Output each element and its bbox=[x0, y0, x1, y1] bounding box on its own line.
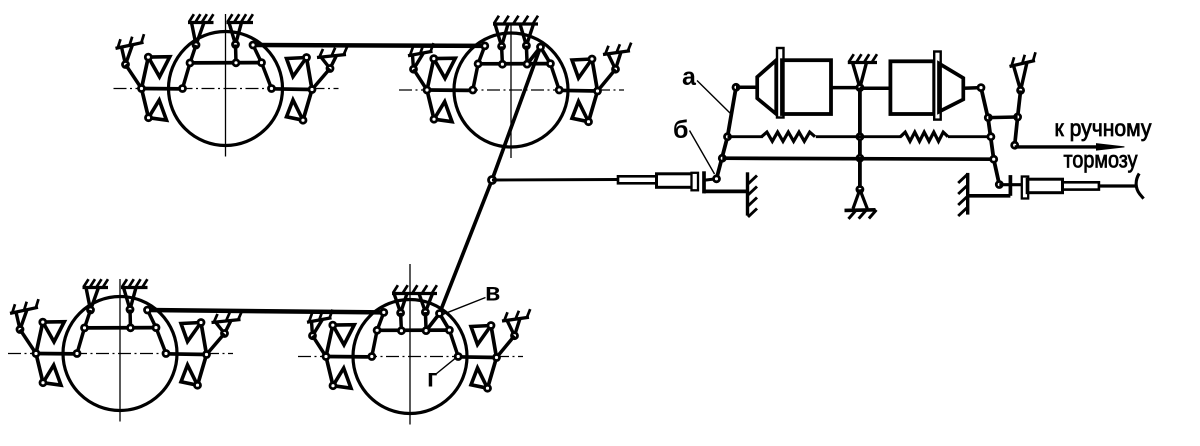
wheel 1 right lever fulcrum pin bbox=[309, 87, 315, 93]
wheel 2 beam pin 3 bbox=[524, 61, 530, 67]
wheel 1 beam left pin bbox=[187, 60, 193, 66]
left yoke bar bbox=[702, 171, 706, 193]
label б bbox=[673, 116, 688, 144]
wheel 1 right rim pin bbox=[269, 86, 275, 92]
diagonal pull rod from central junction to wheel 4 A-frame bbox=[440, 180, 493, 314]
wheel 3 left vertical brake lever bbox=[36, 322, 43, 383]
svg-text:б: б bbox=[673, 116, 688, 144]
wheel 1 left rim pin bbox=[180, 86, 186, 92]
right yoke bar bbox=[1009, 175, 1013, 196]
wheel 4 right hanger-to-lever link bbox=[497, 336, 515, 358]
wheel 3 brake beam (horizontal bar) bbox=[85, 326, 157, 330]
wheel 3 left horizontal lever bbox=[36, 352, 78, 356]
hand-brake hanger bbox=[1014, 62, 1028, 93]
wheel 1 right hanger-to-lever link bbox=[312, 69, 330, 90]
wheel 2 left upper brake shoe bbox=[434, 58, 456, 78]
left main lever bottom pin (б) bbox=[714, 176, 720, 182]
spring tie rod middle segment bbox=[816, 135, 902, 138]
brake cylinder 1 cone bbox=[757, 60, 776, 114]
wheel 1 beam middle pin bbox=[233, 60, 239, 66]
return spring 1 bbox=[762, 132, 815, 141]
wheel 4 right chain link lower bbox=[449, 330, 458, 356]
wheel 4 right lever fulcrum pin bbox=[494, 355, 500, 361]
wheel 1 right brake hanger bracket (hatched support) bbox=[317, 46, 347, 57]
central pivot mount (hatched) bbox=[845, 190, 877, 219]
pull rod from junction to slack adjuster bbox=[492, 178, 618, 181]
wheel 3 right hanger-to-lever link bbox=[207, 334, 225, 355]
svg-text:г: г bbox=[427, 365, 437, 393]
wheel 4 right outer hanger link bbox=[507, 319, 520, 339]
wheel 4 top hatched support bbox=[392, 285, 437, 293]
wheel 1 pull-rod end link bbox=[253, 45, 262, 63]
wheel 4 left upper shoe pin bbox=[330, 322, 336, 328]
label в bbox=[485, 279, 500, 307]
wheel 3 right lower shoe pin bbox=[195, 382, 201, 388]
brake cylinder 1 body bbox=[782, 60, 831, 114]
wheel 3 left lever fulcrum pin bbox=[33, 351, 39, 357]
wheel 2 horizontal centerline bbox=[399, 89, 624, 91]
coupling rod between wheel 1 and wheel 2 bbox=[253, 43, 485, 48]
left slack adjuster thin sleeve bbox=[618, 176, 657, 183]
wheel 1 right horizontal lever bbox=[271, 87, 313, 91]
wheel 4 beam pin 2 bbox=[398, 328, 404, 334]
wheel 2 left vertical brake lever bbox=[427, 59, 434, 120]
wheel 3 right rim pin bbox=[163, 351, 169, 357]
wheel 2 right brake hanger bracket (hatched support) bbox=[603, 43, 631, 55]
wheel 3 top left hatched support bbox=[83, 279, 109, 287]
wheel 2 left outer hanger link bbox=[411, 53, 424, 72]
wheel 3 right upper shoe pin bbox=[198, 320, 204, 326]
wheel 1 left chain link lower bbox=[183, 63, 191, 89]
wheel 2 left lower brake shoe bbox=[434, 102, 452, 122]
wheel 3 beam middle pin bbox=[128, 325, 134, 331]
wheel 4 right vertical brake lever bbox=[488, 326, 497, 389]
wheel 4 vertical centerline bbox=[409, 264, 411, 425]
wheel 4 right lower shoe pin bbox=[485, 385, 491, 391]
central bottom pivot bbox=[857, 187, 863, 193]
left main lever spring pin bbox=[725, 134, 731, 140]
wheel 3 top middle hanger bbox=[124, 288, 137, 313]
spring tie rod left segment bbox=[728, 135, 763, 138]
wheel 2 right vertical brake lever bbox=[589, 59, 598, 122]
coupling rod between wheel 3 and wheel 4 bbox=[148, 310, 384, 312]
wheel 3 right outer hanger link bbox=[216, 321, 232, 337]
wheel 2 rod-end link bbox=[478, 46, 485, 64]
wheel 4 beam pin 4 bbox=[446, 327, 452, 333]
label а leader line bbox=[697, 81, 731, 115]
hand-brake arrow bbox=[1015, 144, 1125, 150]
wheel 3 left chain link upper bbox=[85, 310, 91, 328]
wheel 2 tyre circle bbox=[454, 33, 568, 147]
wheel 3 right lever fulcrum pin bbox=[204, 352, 210, 358]
hand-brake lever bbox=[1015, 90, 1021, 145]
wheel 4 right lower brake shoe bbox=[471, 368, 488, 388]
wheel 3 tyre circle bbox=[63, 297, 177, 411]
wheel 1 tyre circle bbox=[169, 32, 283, 146]
right anchor wall (hatched) bbox=[958, 173, 968, 216]
link between right lever and hand-brake lever bbox=[988, 115, 1017, 119]
wheel 1 right lower brake shoe bbox=[287, 100, 304, 120]
rod end hook bbox=[1136, 174, 1143, 199]
wheel 4 horizontal centerline bbox=[298, 356, 523, 358]
wheel 2 beam pin 4 bbox=[547, 61, 553, 67]
wheel 4 left brake hanger bracket (hatched support) bbox=[307, 310, 333, 323]
wheel 3 middle hanger link bbox=[128, 310, 132, 328]
link brake cylinder 2 to right lever bbox=[963, 86, 981, 90]
wheel 2 right upper brake shoe bbox=[572, 59, 592, 78]
svg-text:к ручному: к ручному bbox=[1055, 115, 1152, 141]
wheel 4 beam pin 1 bbox=[374, 327, 380, 333]
label г bbox=[427, 365, 437, 393]
right lever bottom pin bbox=[996, 182, 1002, 188]
wheel 2 top left hanger bbox=[495, 24, 508, 49]
wheel 1 left upper shoe pin bbox=[145, 54, 151, 60]
brake cylinder 2 cone bbox=[939, 64, 963, 112]
wheel 2 beam pin 2 bbox=[499, 61, 505, 67]
central hatched support bbox=[848, 54, 877, 62]
right lever link pin bbox=[985, 115, 991, 121]
wheel 3 left hanger-to-lever link bbox=[20, 330, 36, 354]
central hanger bbox=[853, 63, 867, 91]
wheel 4 beam pin 3 bbox=[423, 328, 429, 334]
svg-text:а: а bbox=[682, 63, 697, 91]
wheel 1 brake beam (horizontal bar) bbox=[190, 61, 262, 65]
wheel 4 rod-end link bbox=[377, 312, 384, 330]
left main lever rod pin bbox=[719, 155, 725, 161]
wheel 3 left upper brake shoe bbox=[43, 322, 65, 342]
wheel 1 left upper brake shoe bbox=[148, 57, 170, 77]
wheel 3 top left hanger bbox=[86, 288, 99, 314]
wheel 3 left chain link lower bbox=[77, 328, 85, 354]
wheel 1 beam right pin bbox=[259, 60, 265, 66]
wheel 2 right lower brake shoe bbox=[572, 102, 589, 122]
right pull rod bbox=[1099, 184, 1138, 187]
wheel 1 left brake hanger bracket (hatched support) bbox=[116, 34, 145, 48]
wheel 4 top right hanger bbox=[419, 294, 433, 316]
wheel 3 left brake hanger bracket (hatched support) bbox=[10, 299, 39, 313]
wheel 4 left vertical brake lever bbox=[326, 325, 333, 386]
wheel 2 right upper shoe pin bbox=[589, 56, 595, 62]
wheel 2 left lower shoe pin bbox=[431, 116, 437, 122]
wheel 3 vertical centerline bbox=[119, 279, 121, 422]
wheel 2 right chain link lower bbox=[550, 64, 559, 90]
wheel 1 top middle hatched support bbox=[227, 14, 254, 22]
lower tie rod bbox=[722, 158, 993, 159]
brake cylinder 2 flange bbox=[934, 52, 941, 120]
wheel 2 right hanger-to-lever link bbox=[598, 69, 616, 91]
spring tie rod right segment bbox=[948, 135, 991, 138]
wheel 2 left brake hanger bracket (hatched support) bbox=[408, 43, 434, 56]
wheel 3 right upper brake shoe bbox=[181, 323, 201, 342]
wheel 4 right hanger link bbox=[424, 312, 428, 331]
wheel 1 top left hatched support bbox=[188, 14, 214, 22]
wheel 4 rod-end pin bbox=[381, 309, 387, 315]
wheel 2 brake beam (horizontal bar) bbox=[478, 62, 550, 66]
wheel 2 beam pin 1 bbox=[475, 61, 481, 67]
label в leader line bbox=[443, 298, 485, 315]
right slack adjuster body bbox=[1027, 179, 1062, 193]
wheel 4 left chain link lower bbox=[372, 330, 377, 356]
wheel 3 left outer hanger link bbox=[16, 310, 27, 333]
wheel 2 top right hanger bbox=[520, 24, 534, 49]
wheel 2 right lower shoe pin bbox=[586, 119, 592, 125]
wheel 4 left rim pin bbox=[369, 354, 375, 360]
wheel 4 left outer hanger link bbox=[310, 319, 323, 338]
wheel 2 left hanger-to-lever link bbox=[414, 69, 428, 90]
wheel 3 right horizontal lever bbox=[165, 352, 207, 356]
hand-brake hatched support bbox=[1010, 52, 1036, 66]
wheel 3 horizontal centerline bbox=[8, 353, 233, 355]
wheel 4 top left hanger bbox=[394, 294, 407, 316]
wheel 2 A-frame apex pin bbox=[538, 44, 544, 50]
wheel 4 right upper brake shoe bbox=[471, 326, 491, 345]
wheel 3 beam left pin bbox=[82, 325, 88, 331]
wheel 2 right horizontal lever bbox=[556, 88, 598, 92]
right yoke link bbox=[999, 183, 1021, 186]
wheel 4 A-frame apex pin bbox=[437, 311, 443, 317]
return spring 2 bbox=[901, 132, 949, 141]
wheel 1 left lower shoe pin bbox=[146, 115, 152, 121]
wheel 1 left hanger-to-lever link bbox=[126, 65, 142, 89]
wheel 4 tyre circle bbox=[353, 300, 467, 414]
left slack adjuster flange bbox=[692, 173, 699, 191]
wheel 1 right chain link lower bbox=[262, 63, 272, 89]
wheel 1 right upper shoe pin bbox=[304, 55, 310, 61]
wheel 2 left chain link lower bbox=[473, 64, 478, 90]
wheel 4 left lever fulcrum pin bbox=[323, 354, 329, 360]
wheel 4 right horizontal lever bbox=[455, 355, 497, 359]
wheel 2 left upper shoe pin bbox=[431, 56, 437, 62]
wheel 1 left vertical brake lever bbox=[142, 57, 149, 118]
wheel 3 left lower brake shoe bbox=[43, 365, 61, 385]
right lever rod pin bbox=[991, 156, 997, 162]
hand-brake lever mid pin bbox=[1015, 114, 1021, 120]
wheel 1 top left hanger bbox=[192, 23, 205, 49]
wheel 4 right rim pin bbox=[455, 354, 461, 360]
wheel 2 top hatched support bbox=[493, 16, 538, 24]
wheel 3 top middle hatched support bbox=[121, 279, 148, 287]
wheel 4 left lower shoe pin bbox=[330, 383, 336, 389]
wheel 4 left hanger link bbox=[399, 313, 403, 331]
wheel 1 left chain link upper bbox=[190, 45, 196, 63]
wheel 3 pull-rod pin bbox=[145, 307, 151, 313]
wheel 4 A-frame lever bbox=[426, 314, 449, 331]
svg-text:тормозу: тормозу bbox=[1064, 146, 1138, 172]
hand-brake lever bottom pin bbox=[1012, 142, 1018, 148]
label а bbox=[682, 63, 697, 91]
link lever to brake cylinder 1 bbox=[736, 86, 757, 90]
left main lever (а) bbox=[717, 87, 737, 179]
central junction pin bbox=[489, 177, 496, 184]
wheel 1 left lower brake shoe bbox=[149, 100, 167, 120]
left anchor bracket bbox=[704, 190, 748, 194]
wheel 3 beam right pin bbox=[153, 325, 159, 331]
wheel 4 left horizontal lever bbox=[326, 355, 368, 359]
wheel 1 right upper brake shoe bbox=[287, 58, 307, 77]
central lever rod pin bbox=[857, 155, 863, 161]
wheel 2 right outer hanger link bbox=[608, 52, 621, 72]
wheel 3 right vertical brake lever bbox=[198, 323, 207, 386]
central vertical lever bbox=[858, 88, 862, 190]
wheel 2 right rim pin bbox=[556, 87, 562, 93]
wheel 3 left lower shoe pin bbox=[40, 380, 46, 386]
text: к ручному bbox=[1055, 115, 1152, 141]
brake cylinder 1 flange bbox=[777, 48, 784, 118]
left slack adjuster body bbox=[657, 174, 693, 188]
wheel 2 left horizontal lever bbox=[427, 88, 469, 92]
wheel 3 left rim pin bbox=[74, 351, 80, 357]
wheel 4 left hanger-to-lever link bbox=[313, 336, 327, 357]
wheel 2 left hanger link bbox=[500, 46, 504, 64]
wheel 4 right upper shoe pin bbox=[488, 323, 494, 329]
link cylinder 1 to central hanger bbox=[831, 86, 860, 90]
right anchor bracket bbox=[968, 194, 1011, 198]
wheel 3 left upper shoe pin bbox=[40, 319, 46, 325]
right slack adjuster thin sleeve bbox=[1063, 182, 1099, 189]
link central hanger to brake cylinder 2 bbox=[860, 86, 891, 90]
brake cylinder 2 body bbox=[890, 61, 934, 114]
wheel 2 rod-end pin bbox=[482, 43, 488, 49]
wheel 1 left lever fulcrum pin bbox=[139, 86, 145, 92]
wheel 3 pull-rod end link bbox=[148, 310, 157, 328]
wheel 3 right brake hanger bracket (hatched support) bbox=[212, 311, 242, 322]
wheel 2 vertical centerline bbox=[510, 25, 512, 159]
right main lever bbox=[981, 88, 999, 185]
wheel 2 right lever fulcrum pin bbox=[595, 88, 601, 94]
wheel 4 brake beam (horizontal bar) bbox=[377, 328, 449, 332]
wheel 2 A-frame lever bbox=[527, 47, 550, 64]
svg-text:в: в bbox=[485, 279, 500, 307]
wheel 1 pull-rod pin bbox=[250, 42, 256, 48]
wheel 3 right lower brake shoe bbox=[181, 365, 198, 385]
wheel 1 right vertical brake lever bbox=[303, 58, 312, 121]
left anchor wall (hatched) bbox=[748, 172, 758, 217]
right lever spring pin bbox=[988, 134, 994, 140]
wheel 3 right chain link lower bbox=[156, 328, 166, 354]
wheel 1 horizontal centerline bbox=[114, 88, 339, 90]
wheel 2 left rim pin bbox=[470, 87, 476, 93]
wheel 1 right outer hanger link bbox=[321, 56, 337, 72]
left yoke link bbox=[704, 179, 717, 181]
wheel 2 right hanger link bbox=[525, 46, 529, 65]
central lever spring pin bbox=[857, 134, 863, 140]
diagonal pull rod from wheel 2 A-frame to central junction bbox=[492, 47, 541, 180]
wheel 2 left lever fulcrum pin bbox=[424, 87, 430, 93]
label б leader line bbox=[690, 131, 715, 175]
wheel 1 vertical centerline bbox=[225, 14, 227, 157]
right slack adjuster flange bbox=[1022, 177, 1028, 199]
label г leader line bbox=[436, 357, 457, 374]
right main lever top pin bbox=[978, 85, 984, 91]
wheel 4 left lower brake shoe bbox=[333, 368, 351, 388]
wheel 1 left outer hanger link bbox=[122, 45, 133, 68]
wheel 4 right brake hanger bracket (hatched support) bbox=[502, 309, 530, 321]
wheel 1 left horizontal lever bbox=[142, 87, 184, 91]
wheel 1 top middle hanger bbox=[229, 23, 242, 48]
wheel 1 right lower shoe pin bbox=[300, 117, 306, 123]
text: тормозу bbox=[1064, 146, 1138, 172]
left main lever top pin bbox=[733, 84, 739, 90]
wheel 1 middle hanger link bbox=[234, 45, 238, 63]
wheel 4 left upper brake shoe bbox=[333, 325, 355, 345]
